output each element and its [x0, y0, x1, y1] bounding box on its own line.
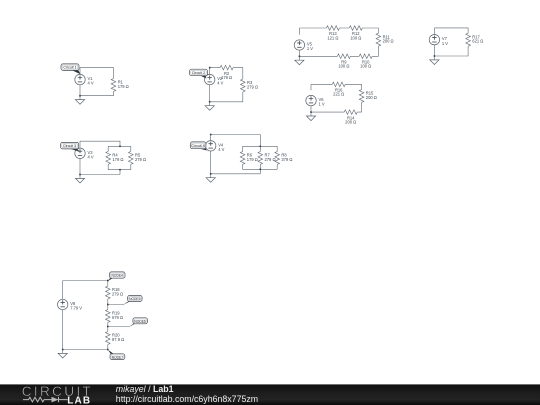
svg-text:4 V: 4 V	[88, 154, 94, 159]
svg-text:Circuit 1: Circuit 1	[63, 66, 76, 70]
svg-text:http://circuitlab.com/c6yh6n8x: http://circuitlab.com/c6yh6n8x775zm	[116, 394, 258, 404]
svg-text:221 Ω: 221 Ω	[333, 92, 344, 97]
svg-text:Circuit 3: Circuit 3	[63, 144, 76, 148]
svg-text:100 Ω: 100 Ω	[338, 64, 349, 69]
svg-text:NODE5: NODE5	[129, 297, 141, 301]
svg-text:1 V: 1 V	[319, 102, 325, 107]
svg-text:621 Ω: 621 Ω	[472, 39, 483, 44]
svg-text:100 Ω: 100 Ω	[350, 35, 361, 40]
svg-text:4 V: 4 V	[217, 81, 223, 86]
svg-text:279 Ω: 279 Ω	[265, 157, 276, 162]
svg-text:NODE7: NODE7	[112, 355, 124, 359]
svg-text:4 V: 4 V	[88, 81, 94, 86]
svg-text:179 Ω: 179 Ω	[247, 157, 258, 162]
svg-text:87.9 Ω: 87.9 Ω	[112, 337, 124, 342]
svg-text:4 V: 4 V	[218, 147, 224, 152]
svg-text:200 Ω: 200 Ω	[366, 95, 377, 100]
svg-text:121 Ω: 121 Ω	[327, 35, 338, 40]
svg-text:7.79 V: 7.79 V	[70, 306, 82, 311]
svg-text:279 Ω: 279 Ω	[247, 85, 258, 90]
svg-text:mikayel / Lab1: mikayel / Lab1	[116, 384, 174, 394]
svg-text:100 Ω: 100 Ω	[360, 64, 371, 69]
svg-text:1 V: 1 V	[442, 41, 448, 46]
svg-text:Circuit 2: Circuit 2	[192, 71, 205, 75]
svg-text:179 Ω: 179 Ω	[112, 157, 123, 162]
svg-text:179 Ω: 179 Ω	[118, 84, 129, 89]
svg-text:NODE6: NODE6	[134, 320, 146, 324]
svg-text:279 Ω: 279 Ω	[135, 157, 146, 162]
svg-text:679 Ω: 679 Ω	[112, 315, 123, 320]
svg-text:200 Ω: 200 Ω	[383, 39, 394, 44]
svg-text:379 Ω: 379 Ω	[281, 157, 292, 162]
svg-text:179 Ω: 179 Ω	[221, 75, 232, 80]
svg-text:1 V: 1 V	[307, 46, 313, 51]
svg-text:NODE4: NODE4	[112, 274, 124, 278]
svg-text:LAB: LAB	[67, 396, 91, 405]
svg-text:Circuit 4: Circuit 4	[192, 144, 205, 148]
svg-text:279 Ω: 279 Ω	[112, 292, 123, 297]
svg-text:200 Ω: 200 Ω	[345, 119, 356, 124]
